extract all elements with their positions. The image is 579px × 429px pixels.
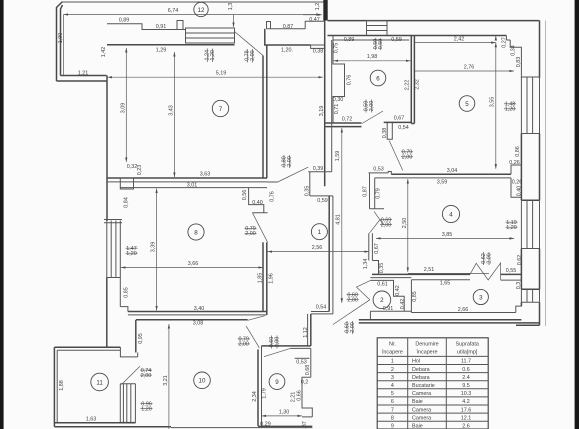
dimension 1.98 — [334, 54, 411, 61]
table header row line — [377, 355, 488, 357]
svg-text:1,34: 1,34 — [363, 259, 369, 270]
svg-text:Denumire: Denumire — [415, 342, 438, 348]
scan border right — [575, 0, 579, 429]
svg-text:2,00: 2,00 — [369, 101, 375, 112]
wall room8 right lower — [263, 242, 267, 315]
svg-text:0,83: 0,83 — [516, 57, 522, 68]
dimension 1.79 — [261, 388, 267, 399]
dimension 0.54 — [398, 125, 409, 131]
svg-text:1,20: 1,20 — [126, 251, 137, 257]
dimension 0.27 — [496, 36, 508, 48]
svg-text:0,71: 0,71 — [334, 104, 340, 115]
svg-text:3,01: 3,01 — [187, 183, 198, 189]
dimension 0.67 — [394, 116, 405, 122]
wall room6 left with step — [333, 36, 345, 124]
svg-text:1,98: 1,98 — [367, 54, 378, 60]
svg-text:1,21: 1,21 — [78, 71, 89, 77]
svg-text:0,85: 0,85 — [123, 287, 129, 298]
svg-text:3,39: 3,39 — [151, 242, 157, 253]
wall room9 top — [262, 346, 311, 349]
svg-text:2,00: 2,00 — [141, 373, 152, 379]
wall room7/room6 main vertical — [324, 20, 326, 187]
svg-text:0,75: 0,75 — [333, 43, 339, 54]
svg-text:0,32: 0,32 — [127, 164, 138, 170]
dimension 3.63 — [200, 172, 211, 178]
dimension 3.66 — [121, 261, 263, 268]
svg-text:12.1: 12.1 — [461, 415, 472, 421]
svg-text:2: 2 — [391, 367, 394, 373]
dimension 2.76 — [415, 64, 514, 71]
wall room10 right / hall left lower — [329, 196, 333, 314]
svg-text:1,63: 1,63 — [86, 417, 97, 423]
dimension 0.76 room6 — [346, 75, 352, 86]
svg-text:0,55: 0,55 — [506, 268, 517, 274]
svg-text:0,26: 0,26 — [512, 180, 523, 186]
door leaf hall south — [333, 300, 370, 325]
dimension 0.67 lower — [374, 243, 380, 254]
door leaf hall-room10 south — [246, 326, 259, 348]
svg-text:1,42: 1,42 — [101, 47, 107, 58]
svg-text:3: 3 — [391, 375, 394, 381]
dimension 0.26 upper — [509, 160, 520, 166]
svg-text:4,81: 4,81 — [336, 214, 342, 225]
svg-text:0,39: 0,39 — [313, 166, 324, 172]
room circle 2 — [373, 291, 391, 309]
dimension 0.89 — [119, 18, 130, 24]
wall room8 bottom step — [120, 307, 128, 312]
wall room6 bottom right segment — [384, 121, 412, 123]
svg-text:7: 7 — [219, 106, 223, 113]
hall niche walls — [308, 172, 333, 196]
svg-text:3: 3 — [479, 294, 483, 301]
dimension 1.3 vertical near door — [228, 3, 234, 27]
dimension 0.29 — [260, 421, 271, 427]
svg-text:11: 11 — [96, 379, 103, 386]
svg-text:0,89: 0,89 — [344, 37, 355, 43]
dimension pair 0.79/2.00 south door — [238, 337, 250, 348]
dimension 0.35 step — [379, 263, 385, 274]
dimension pair 0.78/2.00 — [245, 49, 256, 63]
dimension 3.01 — [187, 183, 198, 189]
svg-text:0,42: 0,42 — [400, 299, 406, 310]
dimension 0.56 — [242, 190, 248, 201]
dimension 0.53 room9 — [296, 359, 307, 365]
wall hall left (inner line) — [331, 40, 333, 172]
dimension pair 0.62/2.00 zigzag — [481, 252, 493, 265]
table column lines — [408, 338, 447, 429]
wall band room7 north right part — [267, 21, 325, 29]
door leaf room9 — [264, 348, 290, 356]
svg-text:2,32: 2,32 — [414, 79, 420, 90]
svg-text:1,20: 1,20 — [505, 107, 516, 113]
svg-text:10.3: 10.3 — [461, 391, 472, 397]
svg-text:4: 4 — [391, 383, 394, 389]
wall notch 0.53 — [369, 172, 392, 175]
svg-text:0,26: 0,26 — [509, 160, 520, 166]
svg-text:5: 5 — [391, 391, 394, 397]
room circle 9 — [269, 374, 285, 390]
closet room8 top-right walls — [249, 188, 268, 213]
window right W1 — [521, 77, 539, 134]
svg-text:3,19: 3,19 — [319, 106, 325, 117]
dimension 1.63 — [86, 417, 97, 423]
wall room10 left — [135, 320, 137, 353]
window right W3 — [521, 289, 539, 302]
svg-text:0,87: 0,87 — [283, 24, 294, 30]
svg-text:5: 5 — [465, 101, 469, 108]
dimension 1.2 vertical near wall — [315, 3, 321, 11]
svg-text:Debara: Debara — [412, 367, 430, 373]
wall band room7 north lower line left — [107, 44, 235, 46]
dimension 2.22 — [404, 80, 410, 91]
dimension 0.2 — [301, 379, 309, 385]
dimension 0.85 room3 — [412, 291, 418, 302]
svg-text:0,47: 0,47 — [309, 17, 320, 23]
svg-text:0,59: 0,59 — [317, 198, 328, 204]
svg-text:1,65: 1,65 — [440, 281, 451, 287]
svg-text:2,00: 2,00 — [274, 337, 280, 348]
svg-text:0,38: 0,38 — [313, 49, 324, 55]
dimension 0.40 closet — [252, 200, 263, 206]
dimension 0.66 room9 — [296, 390, 302, 401]
svg-text:8: 8 — [391, 415, 394, 421]
dimension 0.59 room6 — [391, 37, 402, 43]
svg-text:Nr.: Nr. — [389, 342, 396, 348]
svg-text:2,42: 2,42 — [454, 37, 465, 43]
door leaf room4 — [389, 141, 403, 171]
dimension 4.81 vertical — [336, 128, 342, 303]
svg-text:3,40: 3,40 — [194, 306, 205, 312]
dimension 3.85 — [376, 232, 514, 239]
door chevron room 2 — [357, 280, 371, 299]
dimension pair 0.80/2.00 — [281, 155, 293, 168]
svg-text:0,86: 0,86 — [515, 146, 521, 157]
svg-text:0,66: 0,66 — [296, 390, 302, 401]
svg-text:0,76: 0,76 — [346, 75, 352, 86]
dimension 0.91 — [156, 24, 167, 30]
svg-text:Suprafata: Suprafata — [456, 342, 479, 348]
svg-text:6,74: 6,74 — [168, 8, 179, 14]
svg-text:0,34: 0,34 — [510, 45, 516, 56]
wall room9 left — [258, 346, 262, 426]
svg-text:3,66: 3,66 — [188, 261, 199, 267]
window room12/room7 sill box — [186, 28, 235, 43]
svg-text:3,55: 3,55 — [490, 97, 496, 108]
room circle 1 — [311, 224, 327, 240]
wall room9 right step — [302, 377, 312, 417]
dimension 0.53 — [373, 166, 384, 172]
svg-text:0,40: 0,40 — [517, 186, 523, 197]
svg-text:0,50: 0,50 — [378, 39, 384, 50]
dimension pair 0.74/2.00 — [140, 368, 152, 379]
dimension 2.51 — [408, 267, 489, 273]
room 2 walls — [370, 280, 411, 319]
svg-text:1,85: 1,85 — [258, 273, 264, 284]
svg-text:0.6: 0.6 — [462, 367, 470, 373]
wall top-left corner horizontals — [57, 76, 108, 82]
svg-text:2,00: 2,00 — [238, 342, 249, 348]
svg-text:0,68: 0,68 — [305, 365, 311, 376]
svg-text:0,30: 0,30 — [333, 97, 344, 103]
svg-text:1,12: 1,12 — [303, 327, 309, 338]
wall left exterior / room11 junction — [107, 347, 138, 357]
table border — [377, 338, 488, 429]
svg-text:încapere: încapere — [381, 349, 403, 355]
svg-text:0,38: 0,38 — [382, 128, 388, 139]
svg-text:2,50: 2,50 — [402, 218, 408, 229]
dimension 0.85 left — [123, 287, 129, 298]
wall room10 top — [136, 319, 248, 321]
window top (room6 vent) — [367, 21, 388, 36]
wall left exterior upper — [106, 76, 108, 222]
dimension 0.86 — [515, 146, 521, 157]
dimension 0.54 hall — [316, 305, 327, 311]
svg-text:0,54: 0,54 — [316, 305, 327, 311]
svg-text:2,00: 2,00 — [381, 222, 392, 228]
table rows — [391, 359, 471, 429]
dimension 0.91 — [383, 306, 394, 312]
dimension pair 0.96/1.20 — [141, 401, 153, 412]
svg-text:0,91: 0,91 — [156, 24, 167, 30]
dimension 2.50 — [402, 179, 408, 272]
dimension 3.40 — [194, 306, 205, 312]
svg-text:0,95: 0,95 — [138, 333, 144, 344]
svg-text:1,2: 1,2 — [315, 3, 321, 11]
dimension 0.59 niche — [317, 198, 328, 204]
svg-text:0,91: 0,91 — [383, 306, 394, 312]
svg-text:0,67: 0,67 — [394, 116, 405, 122]
window right W2 — [521, 200, 539, 248]
dimension 2.32 — [414, 79, 420, 90]
dimension 0.61 — [377, 282, 388, 288]
dimension pair 0.60/2.00 room9 door — [269, 336, 281, 349]
svg-text:1,88: 1,88 — [59, 380, 65, 391]
wall room5/room4 divider (3.04) — [375, 174, 511, 178]
wall band lower line right — [265, 29, 311, 45]
svg-text:2,56: 2,56 — [312, 245, 323, 251]
svg-text:0,42: 0,42 — [395, 285, 401, 296]
wall room8 right upper cap — [267, 181, 278, 183]
dimension 0.55 — [506, 268, 517, 274]
dimension 0.89 room6 — [344, 37, 355, 43]
svg-text:12: 12 — [198, 7, 205, 14]
dimension 1.59 — [335, 151, 341, 162]
svg-text:1,20: 1,20 — [141, 406, 152, 412]
svg-text:Camera: Camera — [412, 407, 431, 413]
dimension 0.79 room4 — [375, 188, 381, 199]
dimension 0.84 left — [123, 197, 129, 208]
svg-text:0,87: 0,87 — [363, 186, 369, 197]
svg-text:9: 9 — [275, 379, 279, 386]
wall room9 bottom cut — [258, 425, 312, 427]
dimension pair 1.24/1.20 — [205, 49, 216, 63]
dimension 0.87 room4 — [363, 186, 369, 197]
room circle 10 — [194, 372, 211, 389]
svg-text:1,20.: 1,20. — [281, 48, 293, 54]
dimension 0.42 lower — [400, 299, 406, 310]
dimension 2.66 — [458, 307, 469, 313]
svg-text:1,29: 1,29 — [156, 48, 167, 54]
dimension 0.32 — [127, 164, 138, 170]
svg-text:0,89: 0,89 — [119, 18, 130, 24]
dimension 0.42 upper — [395, 285, 401, 296]
dimension 3.39 — [151, 189, 157, 311]
dimension 3.55 — [490, 43, 496, 169]
wall connector above hall south door — [311, 312, 333, 314]
door leaf room6 — [362, 111, 383, 124]
wall right bottom block — [516, 302, 540, 325]
wall notch room5 top-right — [506, 36, 521, 79]
dimension 1.65 — [440, 281, 451, 287]
dimension 1.88 — [59, 380, 65, 391]
svg-text:2,76: 2,76 — [464, 64, 475, 70]
dimension 1.20 — [281, 48, 293, 54]
svg-text:3,59: 3,59 — [437, 179, 448, 185]
dimension 3.08 — [193, 320, 204, 326]
svg-text:utila[mp]: utila[mp] — [457, 349, 478, 355]
dimension 1.96 — [269, 273, 275, 284]
dimension pair 0.60/2.00 hall door — [344, 321, 356, 334]
svg-text:1: 1 — [318, 229, 322, 236]
svg-text:1,96: 1,96 — [269, 273, 275, 284]
dimension pair 1.47/1.20 — [126, 246, 138, 257]
dimension 0.87 — [283, 24, 294, 30]
svg-text:,87: ,87 — [302, 421, 308, 429]
svg-text:Baie: Baie — [412, 399, 423, 405]
svg-text:0,3: 0,3 — [516, 282, 522, 290]
svg-text:încapere: încapere — [416, 349, 438, 355]
room circle 6 — [370, 70, 386, 86]
wall room11 bottom — [54, 423, 171, 427]
dimension 0.38 stub — [382, 128, 388, 139]
wall room7/hall right — [263, 45, 267, 178]
svg-text:1,3: 1,3 — [228, 3, 234, 11]
svg-text:7: 7 — [391, 407, 394, 413]
dimension 1.21 — [78, 71, 89, 77]
svg-text:0,67: 0,67 — [374, 243, 380, 254]
door leaf room7-hall — [278, 167, 309, 182]
svg-text:0,23: 0,23 — [137, 165, 143, 176]
dimension 0.95 — [138, 333, 144, 344]
svg-text:3,21: 3,21 — [163, 375, 169, 386]
dimension 0.3 right — [516, 282, 522, 290]
pillar rooms7/8 left — [120, 178, 133, 189]
door leaf balcony — [235, 32, 264, 56]
svg-text:4: 4 — [449, 211, 453, 218]
wall rooms 5-6 top inner — [328, 36, 507, 41]
pillar bump left — [177, 21, 183, 30]
dimension 3.59 — [437, 179, 448, 185]
dimension 3.19 — [319, 106, 325, 117]
dimension 1.12 — [303, 327, 309, 338]
scan border left — [0, 0, 4, 429]
wall right of zigzag — [501, 274, 522, 280]
svg-text:2,51: 2,51 — [424, 267, 435, 273]
door leaf room11 — [122, 366, 141, 384]
svg-text:2,00: 2,00 — [250, 50, 256, 61]
shelf room9 — [295, 357, 310, 359]
table header text — [381, 342, 479, 356]
svg-text:3,09: 3,09 — [120, 103, 126, 114]
svg-text:0,72: 0,72 — [342, 117, 353, 123]
wall room4 left (kitchen) — [370, 173, 385, 209]
svg-text:9.5: 9.5 — [462, 383, 470, 389]
dimension 1.29 — [156, 48, 167, 54]
svg-text:0,84: 0,84 — [123, 197, 129, 208]
dimension 0.72 — [342, 117, 353, 123]
room circle 3 — [473, 289, 488, 304]
dimension pair 0.60/2.00 room2 — [347, 292, 359, 303]
dimension 0.71 — [334, 104, 340, 115]
pillar bump right — [267, 22, 271, 29]
dimension pair 1.48/1.20 — [504, 102, 516, 113]
wall room8 bottom band — [128, 312, 267, 315]
wall rooms2-3 top band — [370, 274, 470, 279]
wall bottom edge cut — [171, 427, 312, 429]
dimension 3.21 — [163, 324, 169, 429]
dimension 1.34 — [363, 259, 369, 270]
svg-text:3,85: 3,85 — [442, 232, 453, 238]
svg-text:1,59: 1,59 — [335, 151, 341, 162]
svg-text:2: 2 — [380, 297, 384, 304]
dimension 6.74 — [64, 8, 321, 14]
svg-text:0,40: 0,40 — [252, 200, 263, 206]
dimension pair 1.19/1.20 — [506, 220, 518, 231]
svg-text:0,61: 0,61 — [377, 282, 388, 288]
svg-text:2,00: 2,00 — [486, 253, 492, 264]
dimension 3.43 — [168, 52, 174, 177]
room circle 11 — [91, 373, 109, 391]
room circle 7 — [212, 100, 228, 116]
svg-text:8: 8 — [194, 229, 198, 236]
svg-text:0,35: 0,35 — [379, 263, 385, 274]
svg-text:2,22: 2,22 — [404, 80, 410, 91]
svg-text:0,62: 0,62 — [517, 255, 523, 266]
dimension 0.62 right — [517, 255, 523, 266]
dimension 0.83 — [516, 57, 522, 68]
svg-text:2,21: 2,21 — [290, 392, 296, 403]
svg-text:0,76: 0,76 — [269, 191, 275, 202]
door leaf hall west — [248, 316, 265, 321]
dimension 0.68 — [305, 365, 311, 376]
wall balcony top edge — [61, 1, 325, 3]
room circle 5 — [459, 96, 475, 112]
wall room6 bottom — [326, 123, 362, 127]
svg-text:Baie: Baie — [412, 424, 423, 429]
dimension 0.76 closet — [269, 191, 275, 202]
dimension 0.23 — [137, 165, 143, 176]
svg-text:6: 6 — [391, 399, 394, 405]
svg-text:4.2: 4.2 — [462, 399, 470, 405]
room circle 4 — [442, 205, 459, 222]
dimension 0.39 — [313, 166, 324, 172]
svg-text:Camera: Camera — [412, 391, 431, 397]
dimension 1.42 — [101, 47, 107, 58]
wall stub room4 door jamb — [387, 122, 392, 139]
wall room11 top — [54, 347, 120, 350]
svg-text:3,43: 3,43 — [168, 105, 174, 116]
svg-text:3,08: 3,08 — [193, 320, 204, 326]
dimension pair 0.59/2.00 room6 door — [363, 100, 375, 113]
wall room9 right upper — [310, 348, 312, 377]
dimension 0.40 — [517, 186, 523, 197]
wall right block 2 — [521, 249, 539, 290]
wall outer top-left chamfer — [57, 2, 63, 81]
dimension 2.42 — [415, 37, 496, 43]
wall right step 0.26/0.40 — [511, 165, 521, 197]
wall thick top entry — [323, 0, 327, 21]
svg-text:2,00: 2,00 — [245, 231, 256, 237]
